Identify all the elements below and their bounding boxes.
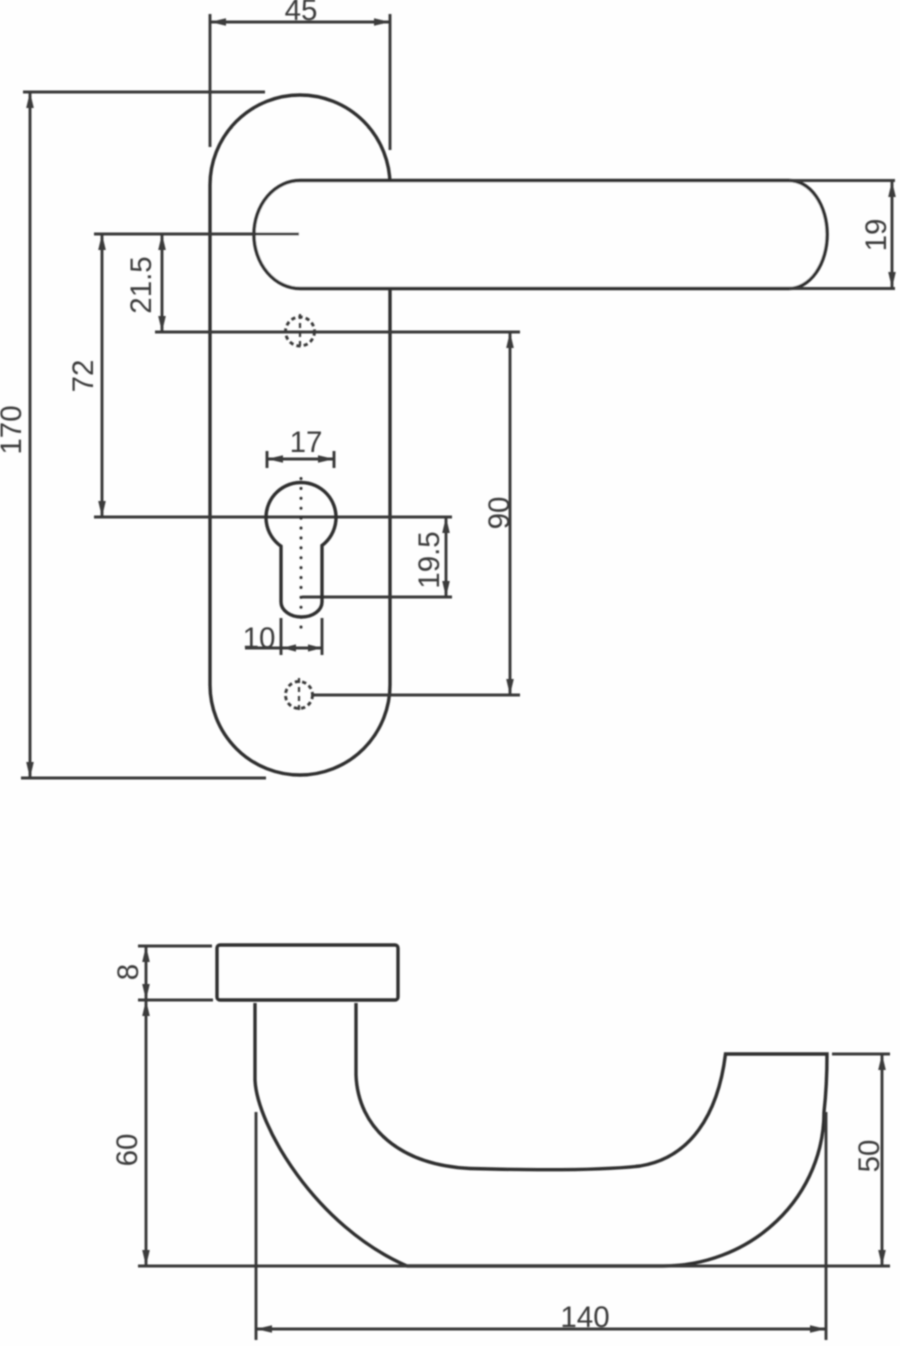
- dim 50 line: [881, 1054, 884, 1266]
- svg-text:60: 60: [111, 1134, 144, 1167]
- dim 10 line: [245, 647, 322, 650]
- svg-text:8: 8: [112, 964, 145, 980]
- dim 60 ext bottom / base reference line: [138, 1265, 890, 1268]
- screw hole top: [286, 317, 315, 346]
- dim 17 ext left: [266, 451, 269, 468]
- dim 10 ext left: [280, 618, 283, 655]
- svg-text:45: 45: [285, 0, 318, 27]
- handle centerline ext: [94, 233, 299, 236]
- dim 140 line: [256, 1328, 826, 1331]
- 50 arrows: [878, 1054, 886, 1070]
- dim 17 ext right: [333, 451, 336, 468]
- dim 45 line: [210, 21, 390, 24]
- 72 arrows: [98, 234, 106, 250]
- cutout dotted centerline: [300, 479, 303, 637]
- dim 10 ext right: [321, 618, 324, 655]
- wire: handle bottom extension to 19 dim: [789, 287, 895, 290]
- screw hole bottom centerline: [298, 678, 300, 713]
- 140 arrows: [256, 1325, 272, 1333]
- 21.5 arrows: [158, 234, 166, 250]
- svg-text:170: 170: [0, 405, 28, 454]
- 17 arrows: [267, 455, 283, 463]
- svg-text:21.5: 21.5: [125, 256, 158, 313]
- dim 8 ext bottom: [138, 999, 213, 1002]
- dim 19 line: [891, 181, 894, 288]
- 60 arrows: [142, 1000, 150, 1016]
- svg-text:19: 19: [860, 219, 893, 252]
- svg-text:72: 72: [67, 360, 100, 393]
- dim 170 ext bottom: [21, 777, 266, 780]
- svg-text:90: 90: [483, 497, 516, 530]
- 90 arrows: [506, 332, 514, 348]
- bottom screw line ext: [313, 694, 520, 697]
- dim 60 line: [145, 1000, 148, 1266]
- svg-text:10: 10: [243, 622, 276, 655]
- handle side profile: [255, 1003, 827, 1266]
- slot bottom ext: [302, 596, 452, 599]
- dim 19.5 line: [445, 517, 448, 597]
- dim 170 ext top: [23, 91, 265, 94]
- dim 170 line: [29, 92, 32, 778]
- svg-text:19.5: 19.5: [413, 531, 446, 588]
- dim 21.5 line: [161, 234, 164, 332]
- 19 arrows: [888, 181, 896, 197]
- dim 140 ext right: [825, 1112, 828, 1340]
- dim 50 ext top: [832, 1053, 890, 1056]
- 170 arrows: [26, 92, 34, 108]
- svg-text:140: 140: [560, 1301, 609, 1334]
- 10 arrows: [282, 644, 296, 651]
- dim 8 line: [145, 946, 148, 1000]
- screw hole bottom: [286, 682, 313, 709]
- dim 90 line: [509, 332, 512, 695]
- top screw line ext: [155, 331, 520, 334]
- dim 140 ext left: [255, 1112, 258, 1340]
- dim 8 ext top: [138, 945, 212, 948]
- svg-text:50: 50: [853, 1140, 886, 1173]
- svg-text:17: 17: [290, 426, 323, 459]
- cylinder center ext: [94, 516, 452, 519]
- lever handle (front view): [254, 181, 827, 289]
- wire: handle top extension to 19 dim: [789, 179, 895, 182]
- dim 45 ext left: [209, 14, 212, 147]
- dim 45 ext right: [389, 14, 392, 150]
- 8 arrows: [142, 946, 150, 962]
- backplate outline (front view): [210, 95, 390, 775]
- dim 72 line: [101, 234, 104, 517]
- 19.5 arrows: [442, 517, 450, 533]
- screw hole top centerline: [299, 314, 301, 350]
- euro cylinder cutout: [266, 482, 336, 617]
- dim 17 line: [267, 458, 334, 461]
- rose rectangle: [217, 945, 398, 1000]
- 45 arrows: [210, 18, 226, 26]
